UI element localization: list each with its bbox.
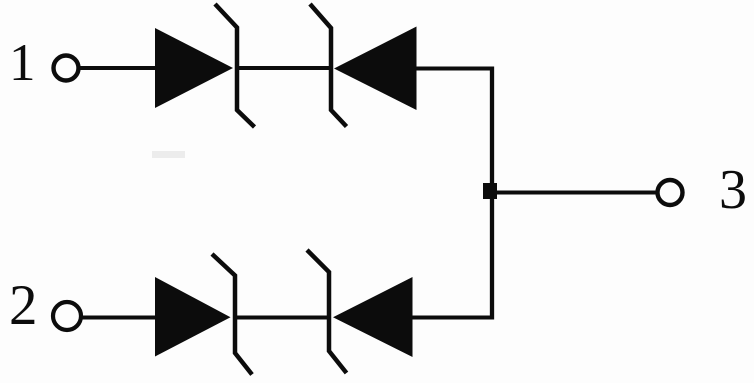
wire terminal2 to D3 anode (82, 316, 156, 320)
wire D4 anode to bus corner (412, 316, 494, 320)
zener diode D4 cathode bar (307, 250, 347, 373)
wire node A to terminal 3 (494, 191, 657, 195)
junction node A (483, 183, 497, 199)
svg-text:2: 2 (9, 274, 38, 337)
wire D2 anode to bus corner (416, 67, 494, 71)
zener diode D1 cathode bar (215, 4, 255, 127)
terminal 2 (53, 302, 81, 330)
wire terminal1 to D1 anode (79, 66, 156, 70)
svg-text:1: 1 (9, 34, 36, 92)
zener diode D4 triangle (333, 277, 413, 357)
zener diode D3 cathode bar (212, 254, 252, 375)
svg-text:3: 3 (719, 159, 747, 221)
terminal 1 (54, 56, 79, 81)
scan smudge artifact (152, 151, 185, 158)
zener diode D3 triangle (155, 277, 231, 357)
wire vertical bus (490, 67, 494, 320)
zener diode D2 triangle (334, 27, 417, 111)
wire D1 cathode to D2 cathode (237, 66, 332, 70)
wire D3 cathode to D4 cathode (235, 316, 330, 320)
terminal 3 (658, 180, 683, 205)
zener diode D2 cathode bar (310, 4, 347, 127)
zener diode D1 triangle (155, 28, 233, 108)
